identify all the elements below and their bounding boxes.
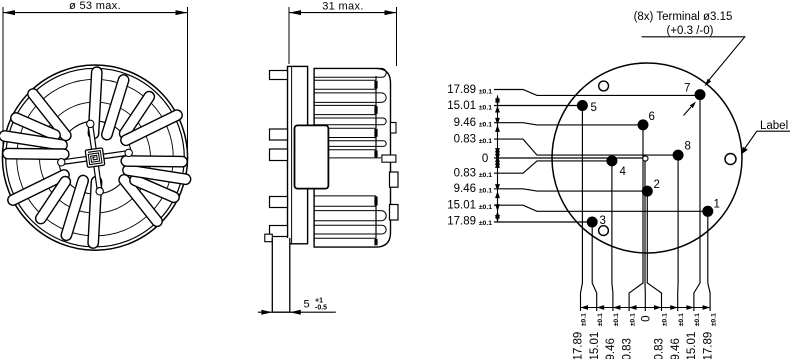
rear view: leader line 15.01 row bbox=[494, 205, 708, 211]
side view: impeller blade lines bbox=[314, 77, 381, 238]
side view: dimension line 31 max. bbox=[289, 10, 397, 15]
front view: blade 14 bbox=[128, 170, 186, 179]
side view: mounting plate bbox=[288, 66, 308, 243]
rear view: left dimension chain bbox=[495, 95, 500, 222]
side view: right clip tab upper bbox=[390, 172, 399, 187]
front view: blade 9 bbox=[93, 182, 96, 243]
rear view: leader line 15.01 row bbox=[494, 105, 582, 107]
svg-text:0: 0 bbox=[640, 316, 652, 322]
front view: blade 6 bbox=[5, 136, 63, 145]
svg-text:±0.1: ±0.1 bbox=[479, 204, 492, 211]
svg-text:9.46: 9.46 bbox=[605, 338, 617, 359]
rear view: note leader bbox=[642, 37, 745, 87]
side view: dimension 5 +1/-0.5 bbox=[258, 310, 336, 315]
svg-text:4: 4 bbox=[620, 166, 627, 178]
svg-text:±0.1: ±0.1 bbox=[479, 138, 492, 145]
svg-text:±0.1: ±0.1 bbox=[479, 220, 492, 227]
front view: blade 10 bbox=[66, 181, 83, 236]
svg-text:ø 53 max.: ø 53 max. bbox=[69, 0, 121, 12]
svg-text:(8x) Terminal ø3.15: (8x) Terminal ø3.15 bbox=[634, 11, 733, 23]
svg-text:-0.5: -0.5 bbox=[315, 305, 327, 312]
front view: blade 7 bbox=[8, 148, 64, 160]
svg-text:±0.1: ±0.1 bbox=[479, 188, 492, 195]
svg-text:5: 5 bbox=[591, 102, 597, 114]
rear view: terminal 0 drop line col 5 bbox=[644, 158, 646, 311]
rear view: terminal 7 drop line col 8 bbox=[694, 95, 700, 311]
front view: rim circle bbox=[6, 68, 185, 247]
rear view: body circle bbox=[552, 63, 742, 253]
side view: terminal tab 1 bbox=[270, 71, 288, 80]
svg-text:0.83: 0.83 bbox=[621, 338, 633, 359]
svg-text:15.01: 15.01 bbox=[686, 332, 698, 359]
front view: blade 4 bbox=[33, 94, 66, 135]
svg-text:9.46: 9.46 bbox=[454, 117, 476, 129]
front view: blade 16 bbox=[126, 115, 177, 140]
front view: hub arm 2 bbox=[103, 149, 132, 156]
svg-text:17.89: 17.89 bbox=[702, 332, 714, 359]
rear view: terminal 5 bbox=[577, 100, 588, 111]
side view: right small tab top bbox=[391, 123, 397, 134]
svg-text:0.83: 0.83 bbox=[454, 133, 476, 145]
svg-text:(+0.3 /-0): (+0.3 /-0) bbox=[667, 25, 714, 37]
rear view: leader line 0.83 row bbox=[494, 139, 678, 155]
svg-text:±0.1: ±0.1 bbox=[662, 313, 669, 326]
svg-text:±0.1: ±0.1 bbox=[581, 313, 588, 326]
rear view: terminal 7 bbox=[695, 89, 706, 100]
rear view: terminal 3 drop line col 2 bbox=[592, 222, 597, 311]
side view: terminal tab 2 bbox=[270, 129, 288, 140]
rear view: direction arrow at terminal 7 bbox=[684, 102, 697, 116]
front view: outer circle bbox=[2, 65, 187, 250]
svg-text:0.83: 0.83 bbox=[654, 338, 666, 359]
rear view: leader line 9.46 row bbox=[494, 123, 643, 125]
svg-text:5: 5 bbox=[304, 299, 310, 311]
rear view: bottom dimension chain bbox=[581, 305, 711, 310]
rear view: terminal 4 drop line col 3 bbox=[612, 161, 613, 311]
front view: hub circle bbox=[59, 121, 132, 194]
svg-text:0.83: 0.83 bbox=[454, 168, 476, 180]
side view: terminal tab 5 bbox=[270, 226, 288, 237]
front view: blade outer circle bbox=[17, 79, 174, 236]
rear view: terminal 8 drop line col 7 bbox=[677, 155, 679, 311]
rear view: terminal 4 bbox=[606, 155, 617, 166]
rear view: terminal 3 bbox=[587, 217, 598, 228]
rear view: leader line 0 row bbox=[494, 157, 645, 159]
side view: right clip tab lower bbox=[390, 205, 399, 221]
rear view: leader line 0.83 row bbox=[494, 161, 612, 173]
svg-text:17.89: 17.89 bbox=[447, 84, 476, 96]
rear view: terminal 5 drop line col 1 bbox=[581, 106, 583, 312]
svg-text:8: 8 bbox=[685, 141, 691, 153]
rear view: leader line 17.89 row bbox=[494, 221, 592, 223]
front view: blade 1 bbox=[94, 72, 97, 133]
svg-text:+1: +1 bbox=[315, 298, 323, 305]
rear view: terminal 2 drop line col 6 bbox=[647, 191, 661, 311]
svg-text:17.89: 17.89 bbox=[573, 332, 585, 359]
side view: impeller rim inner edge bbox=[375, 76, 377, 239]
rear view: label hole bbox=[725, 154, 736, 165]
side view: foot step bbox=[265, 234, 273, 242]
side view: blade tongue ends bbox=[376, 68, 386, 234]
svg-text:15.01: 15.01 bbox=[589, 332, 601, 359]
svg-text:6: 6 bbox=[649, 111, 655, 123]
rear view: terminal 6 drop line col 4 bbox=[629, 125, 643, 311]
front view: dimension line ø 53 max. bbox=[3, 10, 188, 15]
svg-text:±0.1: ±0.1 bbox=[479, 88, 492, 95]
svg-text:9.46: 9.46 bbox=[454, 183, 476, 195]
svg-text:±0.1: ±0.1 bbox=[613, 313, 620, 326]
rear view: Label leader bbox=[742, 131, 790, 154]
rear view: terminal 8 bbox=[673, 150, 684, 161]
svg-text:±0.1: ±0.1 bbox=[678, 313, 685, 326]
side view: mounting foot bbox=[272, 238, 290, 312]
svg-text:15.01: 15.01 bbox=[447, 100, 476, 112]
svg-text:31 max.: 31 max. bbox=[322, 1, 364, 13]
front view: hub arm 4 bbox=[58, 159, 88, 166]
svg-text:±0.1: ±0.1 bbox=[479, 172, 492, 179]
front view: blade 3 bbox=[125, 97, 150, 134]
rear view: terminal 1 bbox=[702, 206, 713, 217]
rear view: terminal 1 drop line col 9 bbox=[708, 211, 710, 311]
rear view: leader line 9.46 row bbox=[494, 189, 647, 191]
side view: connector housing bbox=[295, 125, 329, 188]
svg-text:9.46: 9.46 bbox=[670, 338, 682, 359]
rear view: center hole bbox=[643, 156, 648, 161]
svg-text:±0.1: ±0.1 bbox=[479, 122, 492, 129]
svg-text:1: 1 bbox=[714, 199, 720, 211]
front view: blade 12 bbox=[124, 180, 157, 221]
front view: blade 15 bbox=[126, 155, 182, 167]
front view: hub arm 1 bbox=[87, 120, 94, 149]
svg-text:±0.1: ±0.1 bbox=[479, 105, 492, 112]
front view: center square logo bbox=[85, 148, 105, 168]
side view: plate inner edge bbox=[291, 67, 293, 243]
rear view: mounting hole bottom bbox=[599, 226, 609, 236]
svg-text:17.89: 17.89 bbox=[447, 215, 476, 227]
rear view: terminal 2 bbox=[642, 186, 653, 197]
svg-text:±0.1: ±0.1 bbox=[597, 313, 604, 326]
side view: impeller outer contour bbox=[314, 68, 390, 247]
front view: hub arm 3 bbox=[96, 166, 103, 196]
svg-text:15.01: 15.01 bbox=[447, 200, 476, 212]
side view: dimension "31 max." extension lines bbox=[289, 7, 397, 66]
side view: right step block bbox=[382, 155, 396, 162]
svg-text:0: 0 bbox=[482, 153, 488, 165]
front view: blade 5 bbox=[16, 118, 55, 135]
front view: blade 2 bbox=[107, 80, 124, 135]
rear view: terminal 6 bbox=[638, 119, 649, 130]
svg-text:±0.1: ±0.1 bbox=[710, 313, 717, 326]
svg-text:Label: Label bbox=[760, 120, 788, 132]
side view: blade end bars bbox=[374, 81, 377, 245]
front view: blade mid circle bbox=[40, 102, 151, 213]
svg-text:7: 7 bbox=[684, 83, 690, 95]
front view: blade 11 bbox=[41, 182, 66, 219]
front view: blade 13 bbox=[135, 180, 174, 197]
svg-text:±0.1: ±0.1 bbox=[629, 313, 636, 326]
front view: dimension "ø 53 max." extension lines bbox=[3, 7, 188, 150]
side view: terminal tab 4 bbox=[270, 197, 288, 208]
rear view: mounting hole top bbox=[599, 81, 609, 91]
svg-text:2: 2 bbox=[654, 179, 660, 191]
side view: terminal tab 3 bbox=[270, 149, 288, 161]
front view: blade 8 bbox=[13, 175, 64, 200]
svg-text:±0.1: ±0.1 bbox=[694, 313, 701, 326]
rear view: leader line 17.89 row bbox=[494, 90, 700, 96]
